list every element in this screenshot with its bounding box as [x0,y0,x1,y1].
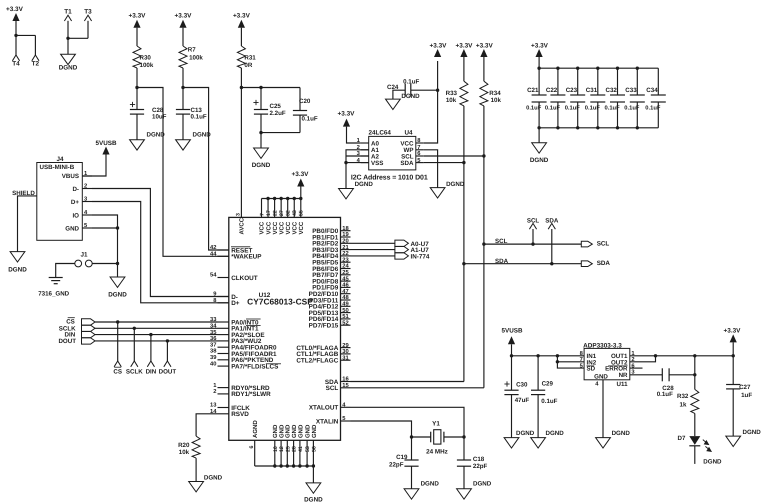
pin 52 PD7/FD15 [341,324,351,326]
connector IN-774 [395,253,409,259]
wire [346,155,369,157]
junction [116,226,119,229]
svg-text:10k: 10k [179,449,190,456]
wire [195,458,197,481]
wire [82,155,106,177]
capacitor C23 0.1uF [577,68,579,95]
junction [259,86,262,89]
wire [437,61,439,90]
junction [556,360,559,363]
pin 9 D- [218,296,229,298]
svg-text:SDA: SDA [545,218,559,225]
junction [312,464,315,467]
pin VCC 6 [293,199,295,218]
svg-text:100k: 100k [140,62,154,69]
pin 47 PD2/FD10 [341,293,351,295]
pin 7 WP [416,149,424,151]
junction [636,126,639,129]
svg-text:C34: C34 [646,87,658,94]
wire [463,466,465,489]
flag DIN [147,361,154,367]
svg-text:C31: C31 [586,87,598,94]
capacitor C13 0.1uF [182,88,184,110]
resistor R20 10k [192,436,200,458]
junction [482,242,485,245]
pin VCC 2 [267,199,269,218]
svg-text:48: 48 [342,294,349,301]
pin 8 D+ [218,302,229,304]
svg-text:47: 47 [342,289,348,295]
junction [436,89,439,92]
pin 30 CTL1/*FLAGB [341,353,351,355]
capacitor C25 2.2uF [260,88,262,110]
svg-text:C23: C23 [566,87,578,94]
pin 5 SDA [416,162,424,164]
junction [556,67,559,70]
svg-text:*WAKEUP: *WAKEUP [231,254,262,261]
svg-text:1uF: 1uF [741,392,752,399]
flag SCL [529,223,536,229]
svg-text:RDY1/*SLWR: RDY1/*SLWR [231,391,271,398]
wire ERROR stub [630,367,643,369]
junction [536,354,539,357]
wire WP to ground [424,150,438,188]
junction [482,154,485,157]
wire [150,335,152,361]
overline INT1 [246,325,261,327]
junction [279,197,282,200]
ground DGND [110,277,125,287]
wire [196,414,217,436]
svg-text:DOUT: DOUT [159,369,177,376]
wire bottom rail [539,127,658,129]
pin 2 RDY1/*SLWR [218,393,229,395]
svg-text:52: 52 [342,319,348,326]
svg-text:37: 37 [210,341,216,348]
svg-text:C27: C27 [739,384,751,391]
svg-text:24: 24 [342,263,349,270]
wire [182,28,184,46]
svg-text:1k: 1k [680,402,687,409]
svg-text:C19: C19 [396,454,408,461]
svg-text:1: 1 [213,383,217,389]
svg-text:30: 30 [342,348,348,355]
flag DOUT [164,361,171,367]
capacitor C32 0.1uF [617,68,619,95]
svg-text:CLKOUT: CLKOUT [231,275,258,282]
svg-text:DGND: DGND [612,430,631,437]
wire NR to C28 [630,374,663,376]
wire [511,344,513,356]
wire [299,115,301,133]
svg-text:44: 44 [210,252,217,258]
svg-text:C22: C22 [546,87,558,94]
wire [300,187,302,199]
wire [347,127,361,143]
junction [286,197,289,200]
wire VCC to +3.3V [424,90,438,143]
wire [351,249,395,251]
wire [15,21,17,35]
junction [273,464,276,467]
ground DGND [10,252,25,262]
svg-text:USB-MINI-B: USB-MINI-B [40,164,75,171]
wire OUT2 [630,356,656,362]
junction [266,197,269,200]
pin 1 RDY0/*SLRD [218,387,229,389]
wire [136,68,138,88]
svg-text:51: 51 [342,314,349,320]
wire [56,264,75,278]
svg-text:IO: IO [72,212,79,219]
junction [636,67,639,70]
wire D- to U12 [92,189,229,297]
svg-text:18: 18 [342,225,349,232]
svg-text:C33: C33 [625,87,637,94]
pin VCC 1 [261,199,263,218]
pin 24 PB6/FD6 [341,268,351,270]
wire [117,228,119,264]
wire GND [92,227,118,229]
svg-text:GND: GND [285,424,292,438]
svg-text:DGND: DGND [421,481,440,488]
wire [532,229,534,244]
svg-text:GND: GND [594,374,608,381]
junction [537,126,540,129]
junction [596,67,599,70]
svg-text:DGND: DGND [8,267,27,274]
capacitor C28 0.1uF (NR) [661,368,663,381]
junction [293,197,296,200]
svg-text:J1: J1 [80,252,88,259]
pin 5 XTALIN [341,420,351,422]
capacitor C30 47uF [511,356,513,390]
svg-text:R7: R7 [188,46,196,53]
wire to RESET [183,88,229,251]
svg-text:PA7/*FLD/SLCS: PA7/*FLD/SLCS [231,363,278,370]
junction [273,197,276,200]
junction [616,67,619,70]
svg-text:C32: C32 [606,87,618,94]
svg-text:VCC: VCC [259,221,266,234]
svg-text:40: 40 [210,360,216,367]
pin 35 PA2/*SLOE [218,334,229,336]
ground DGND [532,143,547,153]
pin 22 PB4/FD4 [341,255,351,257]
svg-text:DGND: DGND [473,481,492,488]
svg-text:+3.3V: +3.3V [292,171,310,178]
svg-text:DGND: DGND [108,291,127,298]
svg-text:24LC64: 24LC64 [369,130,392,137]
flag CS [114,361,121,367]
svg-text:22: 22 [342,250,348,257]
svg-text:0.1uF: 0.1uF [657,391,673,398]
svg-text:27: 27 [279,210,285,216]
pin GND 4 [293,440,295,466]
pin 44 *WAKEUP [218,255,229,257]
capacitor C29 0.1uF [537,356,539,390]
pin GND 6 [306,440,308,466]
svg-text:+3.3V: +3.3V [6,6,24,13]
pin 48 PD3/FD11 [341,299,351,301]
wire [117,322,119,361]
capacitor C22 0.1uF [557,68,559,95]
wire [424,155,484,157]
svg-text:GND: GND [291,424,298,438]
svg-text:DGND: DGND [516,430,535,437]
svg-text:AGND: AGND [252,420,259,438]
svg-text:7: 7 [580,357,583,363]
wire [133,328,135,361]
svg-text:XTALIN: XTALIN [316,418,339,425]
svg-text:25: 25 [342,269,349,276]
junction [462,435,465,438]
pin 39 PA6/*PKTEND [218,359,229,361]
svg-text:10: 10 [273,446,279,452]
wire IO [92,215,118,228]
wire [117,264,119,278]
connector SCL [581,241,592,247]
resistor R30 100k [133,46,141,68]
resistor R31 0R [237,46,245,68]
resistor R32 1k [691,389,699,413]
capacitor C21 0.1uF [538,68,540,95]
svg-text:VCC: VCC [291,221,298,234]
pin 6 SCL [416,155,424,157]
pin 42 RESET [218,249,229,251]
svg-text:3: 3 [236,213,242,216]
svg-text:Y1: Y1 [432,421,440,428]
svg-text:15: 15 [342,383,349,389]
junction [135,86,138,89]
svg-text:D7: D7 [678,435,686,442]
pin 4 XTALOUT [341,406,351,408]
svg-text:16: 16 [342,376,349,383]
pin GND 3 [286,440,288,466]
wire [260,133,262,148]
wire SCLK to PA1 [95,327,218,329]
flag SDA [548,223,555,229]
svg-text:31: 31 [342,354,349,361]
wire [538,128,540,143]
pin VCC 4 [280,199,282,218]
junction [166,339,169,342]
pin 33 PA0/INT0 [218,321,229,323]
pin VCC 7 [300,199,302,218]
svg-text:U4: U4 [405,130,414,137]
svg-text:SCL: SCL [527,218,540,225]
svg-text:+3.3V: +3.3V [456,42,474,49]
connector A0-U7 [395,240,409,246]
svg-text:22: 22 [272,210,278,216]
svg-text:55: 55 [299,210,305,216]
wire [694,413,696,436]
wire [136,114,138,140]
svg-text:38: 38 [210,348,217,355]
svg-text:DGND: DGND [304,497,323,504]
junction [344,161,347,164]
svg-text:C29: C29 [542,381,554,388]
svg-text:56: 56 [311,446,317,452]
junction [116,320,119,323]
svg-text:12: 12 [279,446,285,452]
svg-text:DGND: DGND [703,459,722,466]
svg-text:5VUSB: 5VUSB [96,140,117,147]
pin GND 2 [280,440,282,466]
svg-text:+3.3V: +3.3V [338,111,356,118]
svg-text:7: 7 [417,145,420,151]
pin 1 A0 [361,142,369,144]
junction [240,86,243,89]
svg-text:+3.3V: +3.3V [531,42,549,49]
flag SCLK [131,361,138,367]
pin GND 7 [312,440,314,466]
junction [259,131,262,134]
wire SCL to pin [351,387,484,389]
wire SDA vertical [463,106,465,382]
wire [182,114,184,140]
pin 6 AGND [254,440,256,466]
svg-text:NR: NR [619,372,628,379]
wire DOUT to PA3 [95,340,218,342]
svg-text:VCC: VCC [272,221,279,234]
svg-text:T2: T2 [32,60,40,67]
overline INT0 [246,318,261,320]
svg-text:D+: D+ [71,199,79,206]
junction [654,354,657,357]
svg-text:54: 54 [210,273,217,279]
wire [351,255,395,257]
svg-text:32: 32 [286,210,292,216]
svg-text:+3.3V: +3.3V [175,12,193,19]
junction [576,126,579,129]
junction [133,327,136,330]
svg-text:+3.3V: +3.3V [233,12,251,19]
svg-text:20: 20 [342,238,348,245]
svg-text:SCLK: SCLK [126,369,143,376]
wire DIN to PA2 [95,334,218,336]
ground DGND [254,148,269,158]
svg-text:VCC: VCC [278,221,285,234]
pin 4 VSS [361,162,369,164]
svg-text:53: 53 [305,446,311,452]
pin 23 PB5/FD5 [341,261,351,263]
junction [292,464,295,467]
junction [14,34,17,37]
svg-text:VSS: VSS [371,160,383,167]
svg-text:100k: 100k [189,54,203,61]
svg-text:PD7/FD15: PD7/FD15 [309,323,339,330]
capacitor C27 1uF [732,356,734,385]
junction [693,373,696,376]
wire [694,446,696,464]
pin 25 PB7/FD7 [341,274,351,276]
pin 14 RSVD [218,413,229,415]
junction [616,126,619,129]
wire XTALIN [351,421,412,437]
junction [550,262,553,265]
test point T4 [12,55,19,61]
junction [462,262,465,265]
wire input rail [512,355,585,357]
resistor R34 10k [480,81,488,106]
pin 34 PA1/INT1 [218,327,229,329]
pin 19 PB1/FD1 [341,236,351,238]
junction [556,354,559,357]
pin GND 5 [299,440,301,466]
svg-text:D-: D- [72,186,79,193]
svg-text:0.1uF: 0.1uF [302,115,318,122]
svg-text:DIN: DIN [146,369,157,376]
junction [279,464,282,467]
wire [351,242,395,244]
pin 2 A1 [361,149,369,151]
connector A1-U7 [395,246,409,252]
svg-text:0R: 0R [244,62,252,69]
wire A1/A2/VSS tie [346,150,369,189]
svg-text:J4: J4 [56,156,64,163]
junction [732,354,735,357]
svg-text:46: 46 [342,282,349,289]
svg-text:GND: GND [297,424,304,438]
pin 3 A2 [361,155,369,157]
svg-text:10k: 10k [491,97,502,104]
svg-text:49: 49 [342,301,349,308]
pin 51 PD6/FD14 [341,318,351,320]
pin 13 IFCLK [218,407,229,409]
pin 40 PA7/*FLD/SLCS [218,365,229,367]
wire [67,21,69,39]
wire XTALOUT [351,407,465,437]
earth ground 7316_GND [49,277,63,279]
capacitor C28 10uF [136,88,138,110]
svg-text:6: 6 [249,446,255,449]
capacitor C18 22pF [463,437,465,460]
wire [551,229,553,264]
svg-text:10uF: 10uF [152,114,167,121]
wire [511,395,513,438]
svg-text:GND: GND [65,225,79,232]
svg-text:DGND: DGND [204,475,223,482]
svg-text:DGND: DGND [743,429,762,436]
op-amp U4 24LC64 body [369,136,416,170]
pin 8 VCC [416,142,424,144]
junction [66,37,69,40]
svg-text:+3.3V: +3.3V [129,12,147,19]
svg-text:VCC: VCC [285,221,292,234]
svg-text:41: 41 [298,446,304,452]
op-amp U12 CY7C68013-CSP body [229,217,341,440]
svg-text:SDA: SDA [597,260,611,267]
capacitor C31 0.1uF [597,68,599,95]
junction [116,262,119,265]
svg-text:22pF: 22pF [473,463,488,470]
svg-text:+3.3V: +3.3V [724,327,742,334]
wire [412,436,431,438]
svg-text:4: 4 [595,381,599,387]
svg-text:T1: T1 [64,9,72,16]
pin 45 PD0/FD8 [341,280,351,282]
wire top rail [539,67,658,69]
svg-text:C21: C21 [527,87,539,94]
svg-text:2: 2 [213,388,216,395]
svg-text:22pF: 22pF [389,462,404,469]
svg-text:SCL: SCL [326,385,339,392]
overline RESET [231,246,250,248]
svg-text:42: 42 [210,244,216,251]
svg-text:DGND: DGND [59,65,78,72]
pin VCC 3 [274,199,276,218]
